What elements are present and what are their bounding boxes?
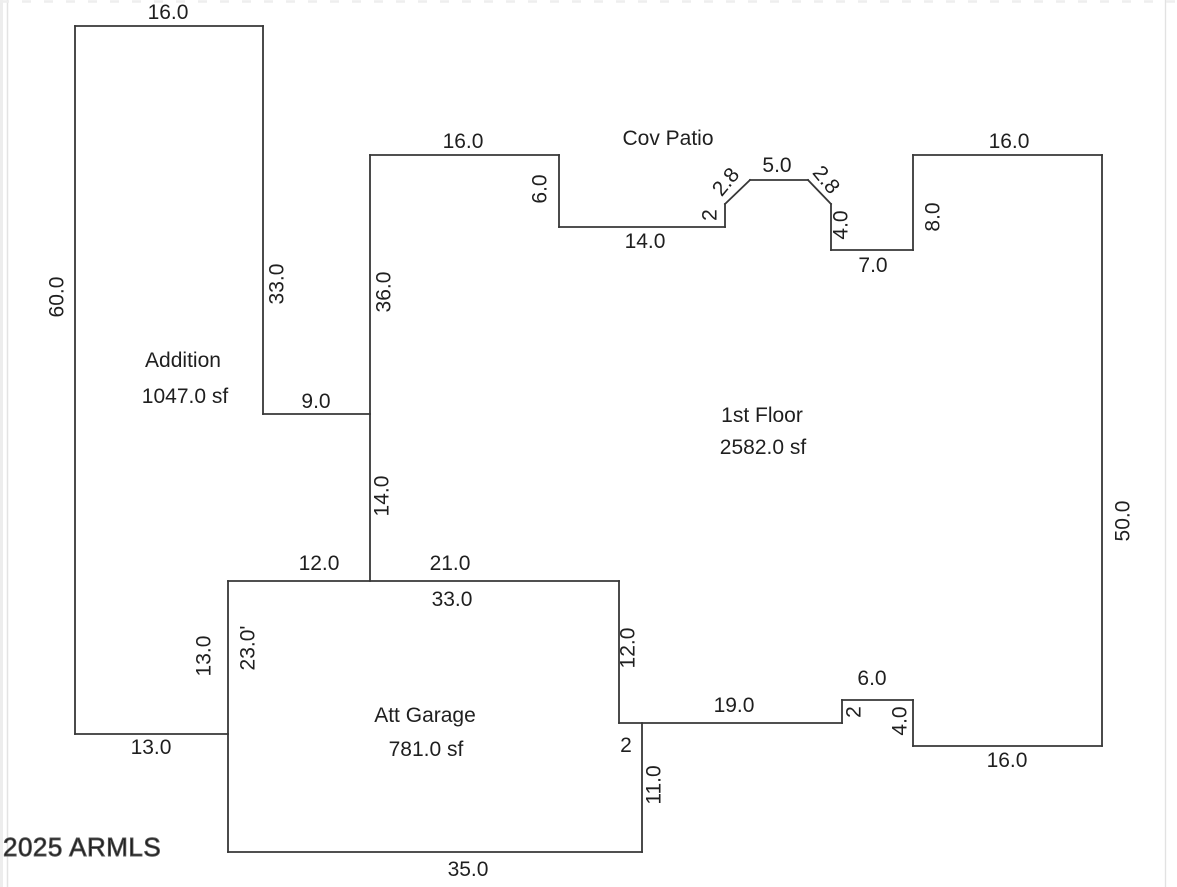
svg-text:1st Floor: 1st Floor bbox=[721, 404, 803, 427]
wall: patio right edge (8.0) bbox=[912, 155, 914, 250]
wall: patio bump step (2) bbox=[724, 204, 726, 227]
wall: addition right (33.0) bbox=[262, 26, 264, 414]
wall: patio bump diagonal right (2.8) bbox=[808, 180, 831, 204]
svg-text:6.0: 6.0 bbox=[529, 174, 552, 203]
svg-text:781.0 sf: 781.0 sf bbox=[389, 738, 464, 761]
svg-text:2: 2 bbox=[620, 734, 632, 757]
svg-text:1047.0 sf: 1047.0 sf bbox=[142, 385, 229, 408]
wall: patio left edge (6.0) bbox=[558, 155, 560, 227]
wall: bottom step down (4.0) bbox=[912, 700, 914, 746]
wall: patio bottom right (7.0) bbox=[831, 249, 913, 251]
svg-text:16.0: 16.0 bbox=[987, 749, 1028, 772]
svg-text:4.0: 4.0 bbox=[889, 706, 912, 735]
svg-text:7.0: 7.0 bbox=[858, 254, 887, 277]
wall: patio bump right (4.0) bbox=[830, 204, 832, 250]
wall: patio bottom (14.0) bbox=[559, 226, 725, 228]
svg-text:35.0: 35.0 bbox=[448, 858, 489, 881]
svg-text:16.0: 16.0 bbox=[148, 1, 189, 24]
svg-text:23.0': 23.0' bbox=[237, 626, 260, 671]
wall: 1st floor bottom right (16.0) bbox=[913, 745, 1102, 747]
svg-text:12.0: 12.0 bbox=[617, 628, 640, 669]
wall: 1st floor right (50.0) bbox=[1101, 155, 1103, 746]
svg-text:33.0: 33.0 bbox=[266, 264, 289, 305]
svg-text:9.0: 9.0 bbox=[301, 390, 330, 413]
svg-text:8.0: 8.0 bbox=[922, 202, 945, 231]
svg-text:16.0: 16.0 bbox=[443, 130, 484, 153]
wall: 1st floor top left (16.0) bbox=[370, 154, 559, 156]
scan faint line left bbox=[7, 0, 9, 887]
svg-text:12.0: 12.0 bbox=[299, 552, 340, 575]
scan faint line right bbox=[1165, 0, 1167, 887]
svg-text:14.0: 14.0 bbox=[625, 230, 666, 253]
wall: garage left (23.0') bbox=[227, 581, 229, 852]
svg-text:4.0: 4.0 bbox=[830, 210, 853, 239]
svg-text:19.0: 19.0 bbox=[714, 694, 755, 717]
svg-text:11.0: 11.0 bbox=[643, 765, 666, 804]
wall: garage right upper (12.0) bbox=[618, 581, 620, 723]
svg-text:14.0: 14.0 bbox=[371, 476, 394, 517]
scan edge strip left bbox=[0, 0, 3, 887]
svg-text:13.0: 13.0 bbox=[131, 736, 172, 759]
svg-text:50.0: 50.0 bbox=[1112, 501, 1135, 542]
scan faint dashed top edge bbox=[0, 0, 1177, 3]
wall: 1st floor bottom left run (2 + 19.0) bbox=[619, 722, 842, 724]
wall: garage top (12.0 + 21.0 / 33.0) bbox=[228, 580, 619, 582]
svg-text:16.0: 16.0 bbox=[989, 130, 1030, 153]
svg-text:2025 ARMLS: 2025 ARMLS bbox=[3, 832, 161, 862]
svg-text:36.0: 36.0 bbox=[373, 272, 396, 313]
svg-text:5.0: 5.0 bbox=[762, 154, 791, 177]
wall: addition bottom (13.0) bbox=[75, 733, 228, 735]
wall: 1st floor left edge (36.0 + 14.0) bbox=[369, 155, 371, 581]
svg-text:60.0: 60.0 bbox=[46, 277, 69, 318]
wall: addition left (60.0) bbox=[74, 26, 76, 734]
svg-text:Cov Patio: Cov Patio bbox=[622, 127, 713, 150]
svg-text:Att Garage: Att Garage bbox=[374, 704, 476, 727]
svg-text:2582.0 sf: 2582.0 sf bbox=[720, 436, 807, 459]
wall: addition top (16.0) bbox=[75, 25, 263, 27]
svg-text:21.0: 21.0 bbox=[430, 552, 471, 575]
wall: step up 2 at bottom bbox=[841, 700, 843, 723]
wall: garage right lower (11.0) bbox=[641, 723, 643, 852]
svg-text:Addition: Addition bbox=[145, 349, 221, 372]
svg-text:2: 2 bbox=[843, 706, 866, 718]
wall: addition step (9.0) bbox=[263, 413, 370, 415]
wall: bottom step (6.0) bbox=[842, 699, 913, 701]
wall: garage bottom (35.0) bbox=[228, 851, 642, 853]
svg-text:33.0: 33.0 bbox=[432, 588, 473, 611]
wall: patio bump diagonal left (2.8) bbox=[725, 180, 750, 204]
svg-text:2: 2 bbox=[699, 209, 722, 221]
wall: 1st floor top right (16.0) bbox=[913, 154, 1102, 156]
svg-text:13.0: 13.0 bbox=[193, 636, 216, 677]
wall: patio bump top (5.0) bbox=[750, 179, 808, 181]
svg-text:6.0: 6.0 bbox=[857, 667, 886, 690]
